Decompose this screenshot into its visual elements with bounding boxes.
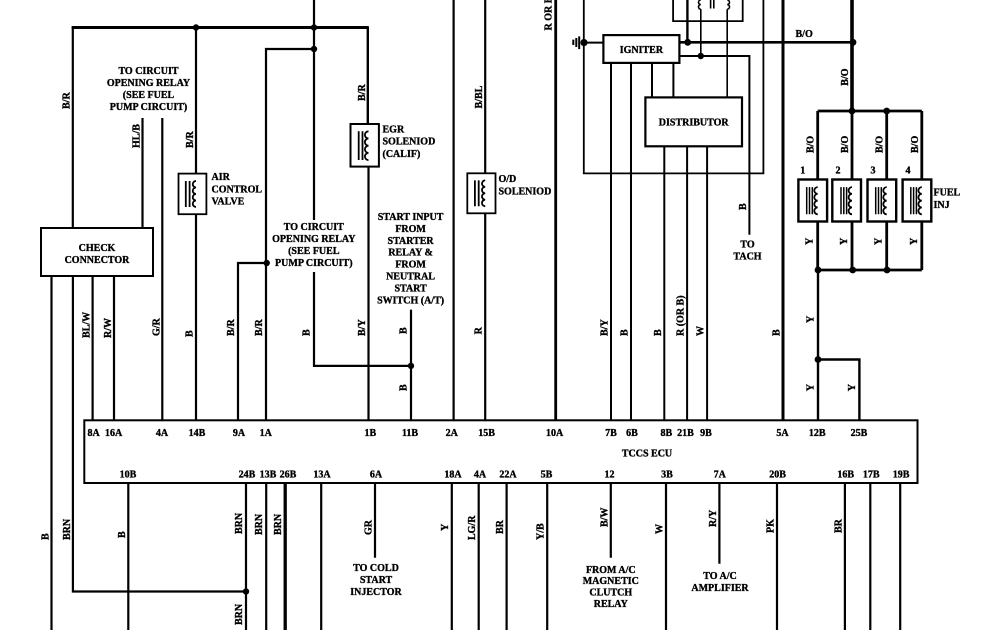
injector 1 box (798, 180, 827, 222)
svg-text:B/W: B/W (599, 508, 610, 527)
wire GR from ECU pin 6A to cold start injector (374, 483, 376, 558)
svg-text:Y: Y (839, 237, 850, 245)
svg-text:13A: 13A (313, 470, 331, 481)
wire BRN from ECU pin 24B (245, 483, 247, 630)
svg-text:FROM A/C: FROM A/C (586, 565, 636, 576)
svg-text:Y/B: Y/B (536, 523, 547, 540)
wire W from ECU pin 3B (665, 483, 667, 630)
svg-text:(SEE FUEL: (SEE FUEL (288, 246, 340, 257)
text TO A/C AMPLIFIER (691, 571, 749, 594)
svg-text:B/O: B/O (796, 29, 813, 40)
wire coil secondary to distributor (726, 9, 728, 97)
svg-text:B/BL: B/BL (474, 85, 485, 108)
svg-text:B: B (399, 327, 410, 334)
wire B igniter to ECU pin 6B (630, 63, 632, 420)
node junction BRN wires (243, 588, 249, 594)
check connector box (41, 228, 153, 276)
TCCS ECU box (84, 420, 917, 483)
svg-text:INJECTOR: INJECTOR (350, 587, 402, 598)
wire B/Y from EGR solenoid to ECU pin 1B (367, 167, 369, 421)
svg-text:SOLENIOD: SOLENIOD (499, 186, 552, 197)
svg-text:13B: 13B (260, 470, 277, 481)
wire drop to injector 4 (920, 111, 923, 180)
svg-text:R: R (474, 326, 485, 334)
wire main B/R feed bus (top horizontal) (72, 26, 368, 29)
wire coil positive (thick) down to B/O line (686, 0, 688, 42)
svg-text:INJ: INJ (934, 200, 950, 211)
wire ground to igniter (584, 42, 603, 44)
O/D solenoid core lines (475, 180, 479, 206)
air control valve coil winding (193, 181, 196, 207)
svg-text:5B: 5B (541, 470, 553, 481)
svg-text:B: B (302, 329, 313, 336)
svg-text:B: B (738, 203, 749, 210)
svg-text:B/O: B/O (840, 68, 851, 85)
svg-text:19B: 19B (893, 470, 910, 481)
injector 2 core lines (841, 187, 847, 214)
svg-text:FROM: FROM (395, 224, 426, 235)
wire W distributor to ECU pin 9B (706, 146, 708, 420)
wire BRN heavy from ECU pin 26B (284, 483, 287, 630)
label FUEL INJ (934, 188, 961, 211)
svg-text:O/D: O/D (499, 174, 517, 185)
wire B/Y igniter to ECU pin 7B (610, 63, 612, 420)
svg-text:PK: PK (766, 519, 777, 533)
node junction rail/feed (849, 108, 856, 115)
svg-text:15B: 15B (478, 428, 495, 439)
wire PK from ECU pin 20B (776, 483, 778, 630)
svg-text:B: B (185, 330, 196, 337)
text TO TACH (733, 240, 761, 263)
node junction at (411,365.9) (408, 363, 414, 369)
svg-text:HL/B: HL/B (132, 124, 143, 148)
svg-text:1B: 1B (364, 428, 376, 439)
svg-text:16A: 16A (105, 428, 123, 439)
svg-text:3: 3 (871, 166, 876, 177)
svg-text:7A: 7A (714, 470, 727, 481)
wire B/R branch to ECU pin 9A (238, 263, 267, 420)
svg-text:Y: Y (440, 523, 451, 531)
wire igniter to tach (679, 56, 749, 235)
node junction at (314,49) (311, 46, 317, 52)
svg-text:R OR B: R OR B (544, 0, 555, 31)
wire LG/R from ECU pin 4A (478, 483, 480, 630)
svg-text:8A: 8A (87, 428, 100, 439)
label O/D SOLENIOD (499, 174, 552, 197)
svg-text:B: B (653, 329, 664, 336)
distributor box (645, 97, 742, 146)
svg-text:10A: 10A (546, 428, 564, 439)
svg-text:1: 1 (800, 166, 805, 177)
svg-text:START INPUT: START INPUT (378, 212, 444, 223)
svg-text:START: START (394, 283, 427, 294)
wire from ECU pin 19B (899, 483, 901, 630)
svg-text:FUEL: FUEL (934, 188, 961, 199)
EGR solenoid coil winding (365, 131, 369, 160)
svg-text:TACH: TACH (733, 252, 761, 263)
label EGR SOLENIOD (CALIF) (383, 124, 436, 160)
wire injector 2 return (851, 221, 854, 270)
wire stub from relay note to check connector (141, 118, 143, 228)
svg-text:4A: 4A (156, 428, 169, 439)
svg-text:R/W: R/W (103, 318, 114, 338)
wire B heavy feed to ECU pin 5A (782, 0, 785, 420)
svg-text:SWITCH (A/T): SWITCH (A/T) (377, 295, 444, 306)
svg-text:TO: TO (740, 240, 754, 251)
svg-text:PUMP CIRCUIT): PUMP CIRCUIT) (275, 258, 353, 269)
injector 1 coil winding (814, 187, 817, 214)
wire BR from ECU pin 22A (506, 483, 508, 630)
svg-text:B/O: B/O (910, 136, 921, 153)
svg-text:B/R: B/R (62, 92, 73, 109)
svg-text:5A: 5A (776, 428, 789, 439)
wire B from top edge through bus to relay note (313, 0, 315, 220)
label CHECK CONNECTOR (65, 243, 131, 266)
svg-text:RELAY: RELAY (594, 599, 629, 610)
svg-text:BRN: BRN (234, 512, 245, 534)
wire BRN from check connector joining 24B wire (73, 276, 246, 592)
wire to ECU pin 2A (453, 0, 455, 420)
node junction rail/injector 2 return (849, 267, 856, 274)
svg-text:B/O: B/O (875, 136, 886, 153)
wire EGR solenoid feed from bus (367, 26, 369, 123)
node junction Y split (815, 356, 822, 363)
wire R/W from check connector to ECU pin 16A (113, 276, 115, 420)
ground symbol (chassis ground at igniter) (573, 36, 579, 49)
ignition coil secondary winding (partial) (727, 0, 729, 9)
wire B/R branch to ECU pin 1A (266, 49, 314, 420)
svg-text:25B: 25B (851, 428, 868, 439)
text TO CIRCUIT OPENING RELAY (SEE FUEL PUMP CIRCUIT) center (272, 222, 356, 269)
wire B from ECU pin 10B (127, 483, 129, 630)
node junction rail/injector 3 (883, 108, 890, 115)
svg-text:EGR: EGR (383, 124, 405, 135)
ignition coil primary winding (partial) (699, 0, 701, 9)
svg-text:22A: 22A (499, 470, 517, 481)
wire injector 1 return (816, 221, 819, 270)
wire B from starter note to ECU pin 11B (410, 310, 412, 421)
node junction rail/down wire (815, 267, 822, 274)
svg-text:TCCS ECU: TCCS ECU (622, 449, 672, 460)
node junction rail/injector 3 return (884, 267, 891, 274)
wire R/Y from ECU pin 7A to A/C amplifier (718, 483, 720, 564)
svg-text:BR: BR (833, 518, 844, 533)
svg-text:12: 12 (605, 470, 615, 481)
svg-text:16B: 16B (837, 470, 854, 481)
node junction B/O line end (850, 39, 857, 46)
svg-text:CONNECTOR: CONNECTOR (65, 255, 131, 266)
EGR solenoid core lines (359, 131, 363, 160)
svg-text:CHECK: CHECK (79, 243, 116, 254)
svg-text:B/Y: B/Y (357, 319, 368, 336)
igniter box (603, 35, 679, 63)
svg-text:11B: 11B (402, 428, 418, 439)
svg-text:BL/W: BL/W (82, 312, 93, 338)
ignition assembly outline box (cut off at top) (584, 0, 764, 173)
wire B from check connector to page bottom (50, 276, 52, 630)
wire BR from ECU pin 16B (844, 483, 846, 630)
svg-text:(CALIF): (CALIF) (383, 149, 421, 160)
injector 4 core lines (911, 187, 917, 214)
svg-text:B: B (41, 533, 52, 540)
air control valve core lines (186, 181, 190, 207)
wire B/O heavy injector feed (850, 0, 854, 111)
wire Y from ECU pin 18A (451, 483, 453, 630)
svg-text:TO CIRCUIT: TO CIRCUIT (118, 66, 178, 77)
svg-text:TO A/C: TO A/C (703, 571, 736, 582)
svg-text:Y: Y (909, 237, 920, 245)
svg-text:B: B (620, 329, 631, 336)
injector 4 box (903, 180, 932, 222)
svg-text:CLUTCH: CLUTCH (589, 588, 632, 599)
svg-text:B: B (117, 531, 128, 538)
svg-text:TO CIRCUIT: TO CIRCUIT (284, 222, 344, 233)
svg-text:3B: 3B (661, 470, 673, 481)
injector 3 box (868, 180, 897, 222)
svg-text:VALVE: VALVE (212, 197, 245, 208)
injector 3 core lines (876, 187, 882, 214)
injector 1 core lines (807, 187, 813, 214)
svg-text:24B: 24B (239, 470, 256, 481)
svg-text:8B: 8B (660, 428, 672, 439)
injector 2 coil winding (849, 187, 852, 214)
svg-text:B/R: B/R (357, 84, 368, 101)
svg-text:B/R: B/R (254, 319, 265, 336)
svg-text:CONTROL: CONTROL (212, 184, 263, 195)
ECU top row pin labels (87, 428, 867, 439)
svg-text:MAGNETIC: MAGNETIC (583, 576, 639, 587)
wire B from relay note to starter-input node (314, 272, 411, 366)
text START INPUT FROM STARTER RELAY note (377, 212, 444, 306)
node junction coil/igniter B/O (684, 39, 691, 46)
EGR solenoid box (351, 124, 379, 167)
svg-text:STARTER: STARTER (388, 236, 435, 247)
wire drop to injector 3 (885, 111, 888, 180)
svg-text:R/Y: R/Y (708, 509, 719, 527)
svg-text:9B: 9B (700, 428, 712, 439)
svg-text:2A: 2A (446, 428, 459, 439)
svg-text:6B: 6B (626, 428, 638, 439)
wire from ECU pin 13A (320, 483, 322, 630)
wire drop to injector 2 (851, 111, 854, 180)
svg-text:14B: 14B (189, 428, 206, 439)
svg-text:NEUTRAL: NEUTRAL (386, 272, 435, 283)
svg-text:R (OR B): R (OR B) (676, 295, 687, 336)
svg-text:LG/R: LG/R (467, 515, 478, 540)
wire injector supply rail (top) (818, 110, 922, 113)
O/D solenoid box (467, 173, 495, 213)
svg-text:AMPLIFIER: AMPLIFIER (691, 583, 749, 594)
wire B/O from igniter to injector feed (679, 41, 853, 44)
svg-text:4A: 4A (474, 470, 487, 481)
injector 3 coil winding (883, 187, 886, 214)
svg-text:BRN: BRN (273, 513, 284, 535)
injector 4 coil winding (918, 187, 921, 214)
wire Y branch to ECU pin 25B (818, 360, 859, 421)
svg-text:10B: 10B (120, 470, 137, 481)
svg-text:4: 4 (906, 166, 911, 177)
wire BRN from ECU pin 13B (265, 483, 267, 630)
svg-text:IGNITER: IGNITER (620, 45, 664, 56)
wire B/R drop to check connector (72, 26, 74, 228)
svg-text:B: B (399, 384, 410, 391)
wire from ECU pin 17B (869, 483, 871, 630)
svg-text:DISTRIBUTOR: DISTRIBUTOR (659, 118, 730, 129)
O/D solenoid coil winding (482, 180, 485, 206)
svg-text:B/O: B/O (806, 136, 817, 153)
svg-text:B/R: B/R (185, 131, 196, 148)
svg-text:B/O: B/O (840, 136, 851, 153)
node junction coil negative / tach line (698, 53, 704, 59)
svg-text:B/R: B/R (226, 319, 237, 336)
svg-text:1A: 1A (260, 428, 273, 439)
text FROM A/C MAGNETIC CLUTCH RELAY (583, 565, 639, 610)
wire R OR B heavy feed to ECU pin 10A (554, 0, 557, 420)
injector 2 box (832, 180, 861, 222)
svg-text:Y: Y (806, 383, 817, 391)
svg-text:BRN: BRN (62, 518, 73, 540)
svg-text:9A: 9A (233, 428, 246, 439)
svg-text:17B: 17B (863, 470, 880, 481)
node ground junction dot (580, 39, 587, 46)
ignition coil box (cut off at top) (673, 0, 743, 21)
svg-text:W: W (655, 524, 666, 534)
svg-text:Y: Y (805, 237, 816, 245)
svg-text:BRN: BRN (254, 513, 265, 535)
svg-text:PUMP CIRCUIT): PUMP CIRCUIT) (110, 102, 188, 113)
wire Y/B from ECU pin 5B (546, 483, 548, 630)
svg-text:18A: 18A (444, 470, 462, 481)
wire B distributor to ECU pin 8B (663, 146, 665, 420)
svg-text:OPENING RELAY: OPENING RELAY (107, 78, 191, 89)
svg-text:(SEE FUEL: (SEE FUEL (123, 90, 175, 101)
wire igniter to distributor (right) (672, 63, 674, 98)
svg-text:RELAY &: RELAY & (388, 248, 433, 259)
wire B/W from ECU pin 12 to A/C clutch relay (610, 483, 612, 558)
svg-text:Y: Y (874, 237, 885, 245)
svg-text:G/R: G/R (152, 317, 163, 336)
node junction on bus at air control valve wire (193, 24, 199, 30)
svg-text:7B: 7B (605, 428, 617, 439)
svg-text:Y: Y (847, 383, 858, 391)
node junction at (266.7,263) (264, 260, 270, 266)
svg-text:B/Y: B/Y (600, 319, 611, 336)
wire injector return rail (bottom) (818, 269, 922, 272)
svg-text:W: W (696, 326, 707, 336)
svg-text:GR: GR (364, 519, 375, 535)
wire coil negative down to igniter line (700, 9, 702, 56)
air control valve box (179, 174, 207, 215)
ignition coil core lines (711, 0, 714, 9)
wire B/BL from top through O/D solenoid (484, 0, 486, 420)
svg-text:6A: 6A (370, 470, 383, 481)
svg-text:Y: Y (806, 315, 817, 323)
wire Y return rail to ECU pin 12B (817, 270, 819, 420)
label AIR CONTROL VALVE (212, 172, 263, 208)
text TO COLD START INJECTOR (350, 563, 402, 598)
svg-text:OPENING RELAY: OPENING RELAY (272, 234, 356, 245)
svg-text:20B: 20B (769, 470, 786, 481)
svg-text:START: START (360, 575, 393, 586)
wire R (OR B) distributor to ECU pin 21B (686, 146, 688, 420)
svg-text:FROM: FROM (395, 260, 426, 271)
ECU bottom row pin labels (120, 470, 910, 481)
svg-text:2: 2 (836, 166, 841, 177)
svg-text:B: B (772, 329, 783, 336)
svg-text:TO COLD: TO COLD (353, 563, 399, 574)
wire drop to injector 1 (816, 111, 819, 180)
svg-text:21B: 21B (677, 428, 694, 439)
wire G/R from relay note to ECU pin 4A (161, 118, 163, 420)
wire B to air control valve and ECU pin 14B (195, 28, 197, 421)
wire injector 4 return (920, 221, 923, 270)
node junction on bus at circuit-opening-relay wire (311, 24, 317, 30)
wire BL/W from check connector to ECU pin 8A (91, 276, 93, 420)
wire igniter to distributor (left) (651, 63, 653, 98)
svg-text:BR: BR (495, 519, 506, 534)
svg-text:26B: 26B (280, 470, 297, 481)
svg-text:AIR: AIR (212, 172, 231, 183)
text TO CIRCUIT OPENING RELAY (SEE FUEL PUMP CIRCUIT) upper-left (107, 66, 191, 113)
svg-text:SOLENIOD: SOLENIOD (383, 137, 436, 148)
wire injector 3 return (885, 221, 888, 270)
svg-text:12B: 12B (809, 428, 826, 439)
svg-text:BRN: BRN (234, 603, 245, 625)
